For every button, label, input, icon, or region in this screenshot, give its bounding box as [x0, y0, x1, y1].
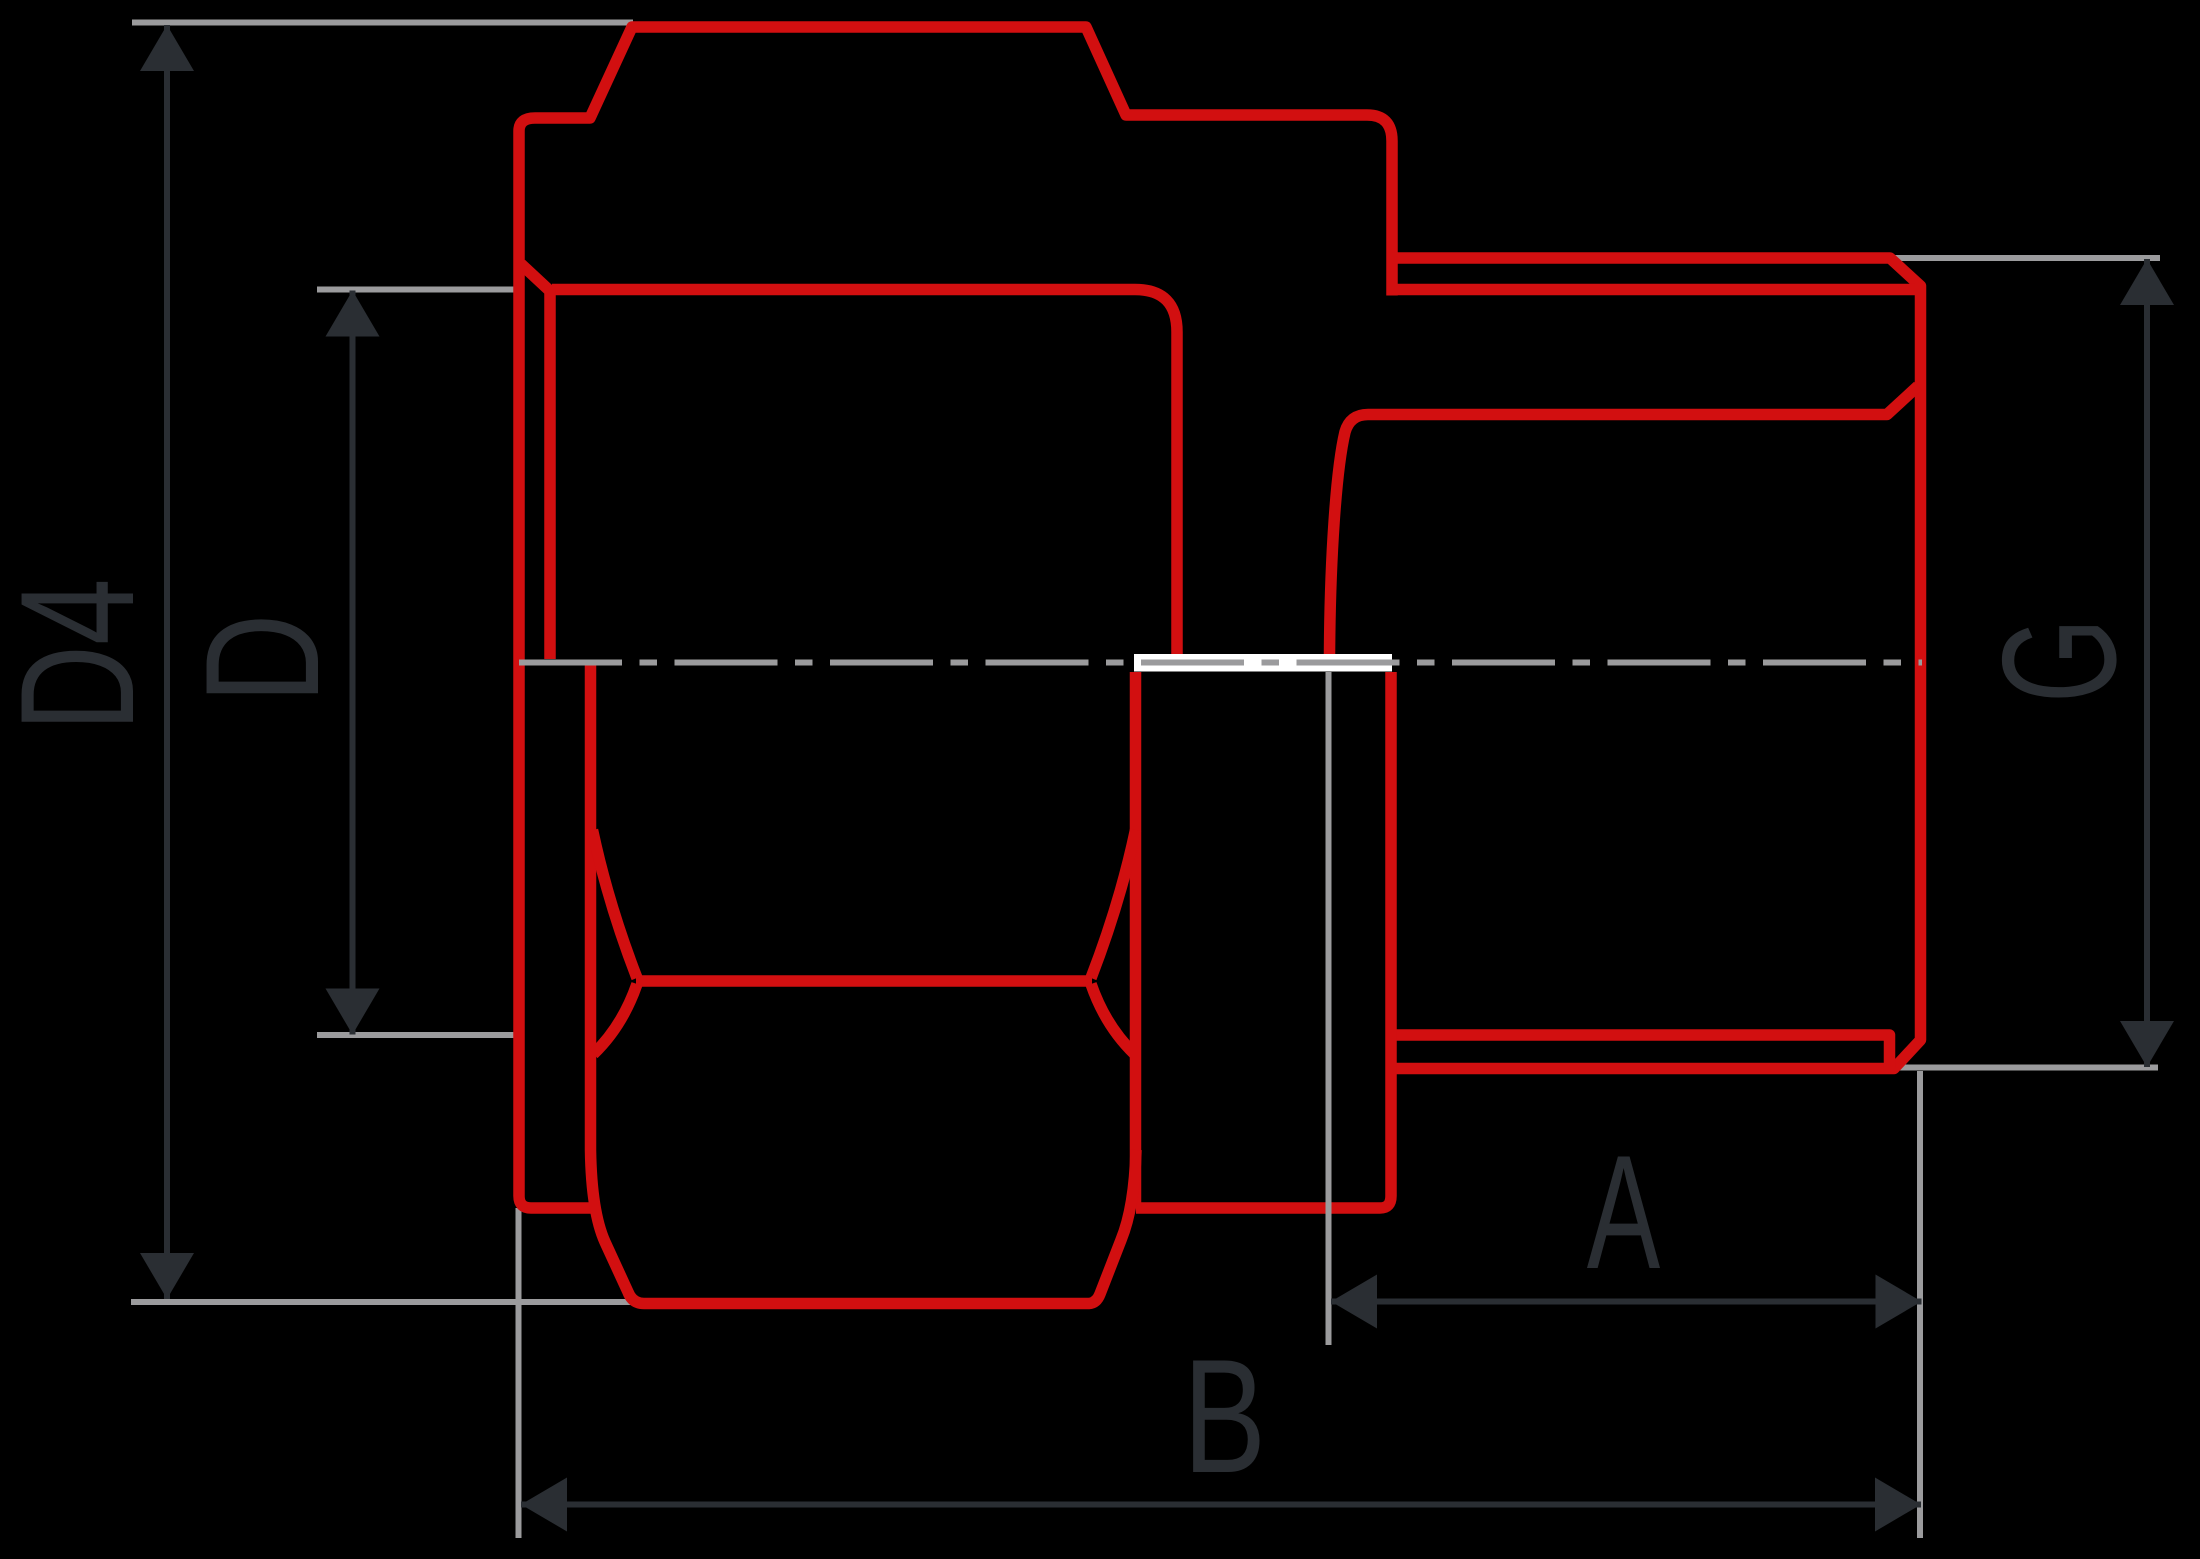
extension line D bottom [317, 1032, 518, 1038]
male thread crest outline with end chamfers and end face [1392, 258, 1921, 1069]
dimension line B [521, 1502, 1921, 1508]
svg-text:A: A [1587, 1123, 1661, 1303]
hex corner edge right (bottom view) [1130, 672, 1142, 1208]
extension line A/B right [1917, 1071, 1923, 1538]
fitting outer profile: socket end face, crown (hex top), collar [519, 27, 1392, 1208]
arrowhead B left [521, 1478, 567, 1532]
arrowhead D up [326, 291, 380, 337]
male thread root line bottom with connector [1396, 1035, 1890, 1068]
extension line G top [1894, 255, 2160, 261]
dimension line A [1331, 1299, 1922, 1305]
svg-text:D4: D4 [0, 578, 168, 731]
section break white band [1134, 654, 1392, 672]
svg-text:B: B [1183, 1325, 1266, 1507]
hex face arc right upper [1091, 830, 1136, 978]
extension line D4 top [132, 20, 633, 26]
arrowhead G down [2120, 1021, 2174, 1067]
arrowhead G up [2120, 259, 2174, 305]
dimension line D4 [164, 25, 170, 1299]
socket entrance chamfer and bore edge [521, 264, 550, 659]
dimension line D [350, 291, 356, 1035]
step face bottom view [1136, 672, 1391, 1208]
extension line G bottom [1896, 1065, 2158, 1071]
male thread root line top [1396, 284, 1915, 296]
hex face arc left lower [594, 984, 638, 1054]
arrowhead B right [1875, 1478, 1921, 1532]
centerline [519, 660, 1922, 666]
arrowhead A left [1331, 1275, 1377, 1329]
hex face arc left upper [593, 830, 638, 978]
socket bore top with pipe stop face [552, 290, 1177, 656]
extension line D top [317, 287, 519, 293]
arrowhead D4 down [140, 1253, 194, 1299]
arrowhead D down [326, 989, 380, 1035]
arrowhead A right [1876, 1275, 1922, 1329]
extension line A left [1326, 672, 1332, 1345]
svg-text:G: G [1970, 618, 2151, 703]
extension line B left [516, 1208, 522, 1538]
hex corner arc right and bottom flat and corner arc left (bottom view) [591, 663, 1137, 1304]
arrowhead D4 up [140, 25, 194, 71]
extension line D4 bottom [131, 1299, 641, 1305]
male end bore and female thread curve [1330, 386, 1919, 656]
svg-text:D: D [171, 613, 353, 703]
hex face arc right lower [1091, 984, 1135, 1054]
dimension line G [2144, 259, 2150, 1067]
hex face edge line (bottom view) [636, 975, 1092, 987]
